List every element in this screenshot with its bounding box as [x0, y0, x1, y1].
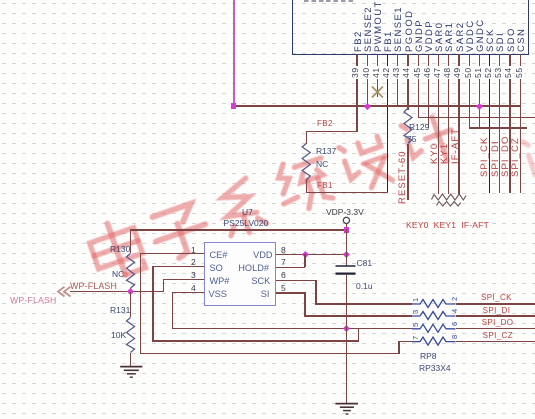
char ji: [401, 111, 460, 172]
wire ground vertical (C81 bottom to GND): [346, 275, 347, 404]
pin label SCK (pin 52): [485, 28, 496, 52]
pin label SDI (pin 53): [495, 31, 506, 51]
wire pin1 stub: [140, 253, 204, 254]
pin number 41: [372, 66, 381, 79]
pin number 52: [484, 66, 493, 79]
wire CE# jog up: [398, 341, 399, 354]
pin number 45: [413, 66, 422, 79]
pin label SAR0 (pin 47): [434, 21, 445, 51]
wire R130 bottom: [130, 288, 131, 292]
pin wire 48 KY1: [448, 54, 449, 194]
wire SPI_DO out: [456, 328, 535, 329]
text NC: [112, 269, 124, 279]
wire R131 bottom: [130, 353, 131, 367]
text VDP-3.3V: [326, 207, 364, 217]
wire VSS vertical: [172, 292, 173, 329]
pin label PGOOD (pin 44): [404, 9, 415, 51]
U7 inner label HOLD#: [238, 264, 269, 273]
pin label PWMOUT (pin 41): [373, 0, 384, 52]
pin label FB2 (pin 39): [353, 30, 364, 52]
net label SPI_CZ (vertical): [511, 137, 521, 177]
pin number 48: [443, 66, 452, 79]
text RP8: [420, 351, 437, 361]
net label SPI_CK (vertical): [480, 137, 490, 177]
char dian: [85, 216, 147, 283]
text R130: [110, 244, 130, 254]
pin wire 39: [356, 54, 357, 132]
U7 inner label SCK: [251, 277, 270, 286]
U7 pin number 6: [281, 270, 286, 280]
net label IF-AFT: [451, 128, 461, 164]
wire pin3 stub: [163, 279, 204, 280]
RP8 pin number 7: [412, 335, 420, 339]
watermark fragment right edge: [523, 131, 535, 187]
pin number 53: [494, 66, 503, 79]
pin number 42: [382, 66, 391, 79]
U7 inner label SI: [261, 290, 270, 299]
pin number 39: [351, 66, 360, 79]
net label KY0: [430, 143, 440, 164]
net label SPI_DI (vertical): [491, 140, 501, 177]
char xi: [215, 177, 268, 239]
junction power tap (square): [344, 227, 350, 233]
wire pin2 stub: [152, 266, 204, 267]
pin number 46: [423, 66, 432, 79]
wire pin5 stub: [276, 292, 305, 293]
pin number 43: [392, 66, 401, 79]
pin label VDDP (pin 46): [424, 20, 435, 52]
wire CE# bottom row: [140, 353, 398, 354]
wire: bus1 horizontal: [233, 105, 521, 106]
pin number 49: [453, 66, 462, 79]
pin label FB1 (pin 42): [383, 30, 394, 52]
pin number 54: [504, 66, 513, 79]
pin wire 50 (to bus3): [469, 54, 470, 128]
char tong: [271, 152, 335, 216]
text R131: [110, 305, 130, 315]
pin label GNDP (pin 45): [414, 18, 425, 51]
pin wire 45 (to bus2): [418, 54, 419, 118]
wire SO vertical: [152, 266, 153, 341]
op IC U7 body: [204, 242, 276, 306]
junction VSS/ground line: [343, 325, 350, 332]
RP8 pin number 5: [412, 323, 420, 327]
junction pin40/bus1: [364, 103, 371, 110]
junction pin51/bus1: [476, 103, 483, 110]
off-page connector WP-FLASH (pink): [10, 295, 57, 305]
U7 inner label VSS: [209, 290, 227, 299]
wire: vertical magenta feeder: [233, 0, 235, 107]
pin number 40: [362, 66, 371, 79]
U7 pin number 4: [191, 283, 196, 293]
net label SPI_DO (vertical): [501, 136, 511, 177]
pin wire 41 (to no-connect X): [377, 54, 378, 97]
wire SI vertical: [304, 292, 305, 316]
wire SO row: [152, 340, 357, 341]
junction HOLD# tie: [302, 251, 309, 258]
text U7: [242, 207, 253, 217]
partial text remnant at very top: [304, 0, 356, 2]
wire SO jog up: [358, 328, 359, 341]
pin label SAR2 (pin 49): [455, 21, 466, 51]
pin wire 46: [428, 54, 429, 128]
wire CE# vertical: [140, 253, 141, 354]
pin wire 52 SPI_CK (black): [489, 54, 490, 193]
wire power stub: [346, 224, 347, 231]
junction VDD tap: [343, 251, 350, 258]
wire SPI_DI out: [456, 315, 535, 316]
label FB2: [317, 120, 333, 128]
U7 pin number 7: [281, 257, 286, 267]
wire 3.3V rail to R130: [131, 229, 347, 230]
net label RESET-60: [398, 150, 408, 204]
RP8 pin number 8: [451, 334, 459, 338]
U7 pin number 5: [281, 283, 286, 293]
wire SPI_CK out: [456, 303, 535, 304]
wire R137 top stub: [306, 131, 307, 144]
wire SCK vertical: [315, 280, 316, 305]
RP8 pin number 1: [412, 298, 420, 302]
wire SCK row to RP8 pin1: [315, 303, 412, 304]
wire pin7 stub: [276, 267, 305, 268]
wire pin6 stub: [276, 280, 316, 281]
label WP-FLASH (red, on wire): [70, 281, 117, 291]
pin wire 42 FB1 (black): [387, 54, 388, 193]
RP8 pin number 3: [412, 310, 420, 314]
pin wire 55 SPI_CZ: [520, 54, 521, 193]
net label SPI_DO: [482, 319, 514, 327]
wire HOLD# vertical: [304, 254, 305, 267]
pin number 55: [515, 66, 524, 79]
pin number 51: [474, 66, 483, 79]
pin label GNDC (pin 51): [475, 18, 486, 52]
pin label SAR1 (pin 48): [444, 21, 455, 51]
wire FB2 horizontal: [306, 131, 357, 132]
wire SI row to RP8 pin3: [304, 315, 412, 316]
pin wire 51: [479, 54, 480, 128]
pin label CSN (pin 55): [516, 27, 527, 51]
wire RP8 row4 feed: [398, 341, 412, 342]
wire WP-FLASH horizontal: [70, 291, 165, 292]
junction WP-FLASH node: [127, 288, 134, 295]
wire SPI_CZ out: [456, 341, 535, 342]
wire VSS row to RP8 pin5: [172, 328, 412, 329]
pin wire 47 KY0: [438, 54, 439, 194]
net label SPI_CZ: [483, 332, 513, 340]
U7 pin number 2: [191, 257, 196, 267]
pin wire 44 (to R129): [407, 54, 408, 110]
wire R137 bottom stub: [306, 180, 307, 193]
U7 inner label CE#: [210, 251, 228, 260]
wire R131 top: [130, 292, 131, 318]
wire WP# jog: [163, 279, 164, 292]
pin label SDO (pin 54): [506, 27, 517, 52]
char zi: [148, 201, 213, 263]
U7 pin number 3: [191, 270, 196, 280]
net label SPI_CK: [481, 294, 512, 302]
junction square at bus1 start: [231, 103, 237, 109]
RP8 pin number 4: [451, 309, 459, 313]
U7 pin number 1: [191, 245, 196, 255]
wire power vertical upper (to C81 top): [346, 229, 347, 266]
text PS25LV020: [224, 218, 269, 228]
wire: bus2 horizontal: [418, 117, 535, 118]
U7 inner label VDD: [253, 251, 272, 260]
pin label SENSE2 (pin 40): [363, 6, 374, 52]
pin number 50: [464, 66, 473, 79]
pin label VDDC (pin 50): [465, 19, 476, 52]
net label KY1: [440, 143, 450, 164]
pin wire 53 SPI_DI: [499, 54, 500, 193]
net label SPI_DI: [483, 307, 511, 315]
label FB1: [317, 182, 333, 190]
U7 pin number 8: [281, 245, 286, 255]
text 10K: [111, 330, 126, 340]
text KEY0 KEY1 IF-AFT: [406, 220, 489, 230]
pin label SENSE1 (pin 43): [393, 6, 404, 52]
RP8 pin number 6: [451, 322, 459, 326]
wire: bus3 horizontal: [469, 127, 528, 128]
wire below R129: [407, 144, 408, 200]
U7 inner label WP#: [210, 277, 230, 286]
text RP33X4: [419, 363, 451, 373]
wire pin4 stub: [172, 292, 204, 293]
RP8 pin number 2: [451, 297, 459, 301]
wire R130 top: [130, 229, 131, 253]
wire pin8 VDD row: [276, 254, 346, 255]
char she: [339, 134, 394, 194]
IC U-top body outline (cut off at top of image): [292, 0, 529, 55]
pin wire 49 IF-AFT: [458, 54, 459, 194]
pin number 47: [433, 66, 442, 79]
pin wire 43: [397, 54, 398, 106]
pin number 44: [402, 66, 411, 79]
pin wire 54 SPI_DO: [509, 54, 510, 193]
wire FB1 horizontal: [306, 192, 389, 193]
U7 inner label SO: [210, 264, 223, 273]
pin wire 40: [367, 54, 368, 106]
